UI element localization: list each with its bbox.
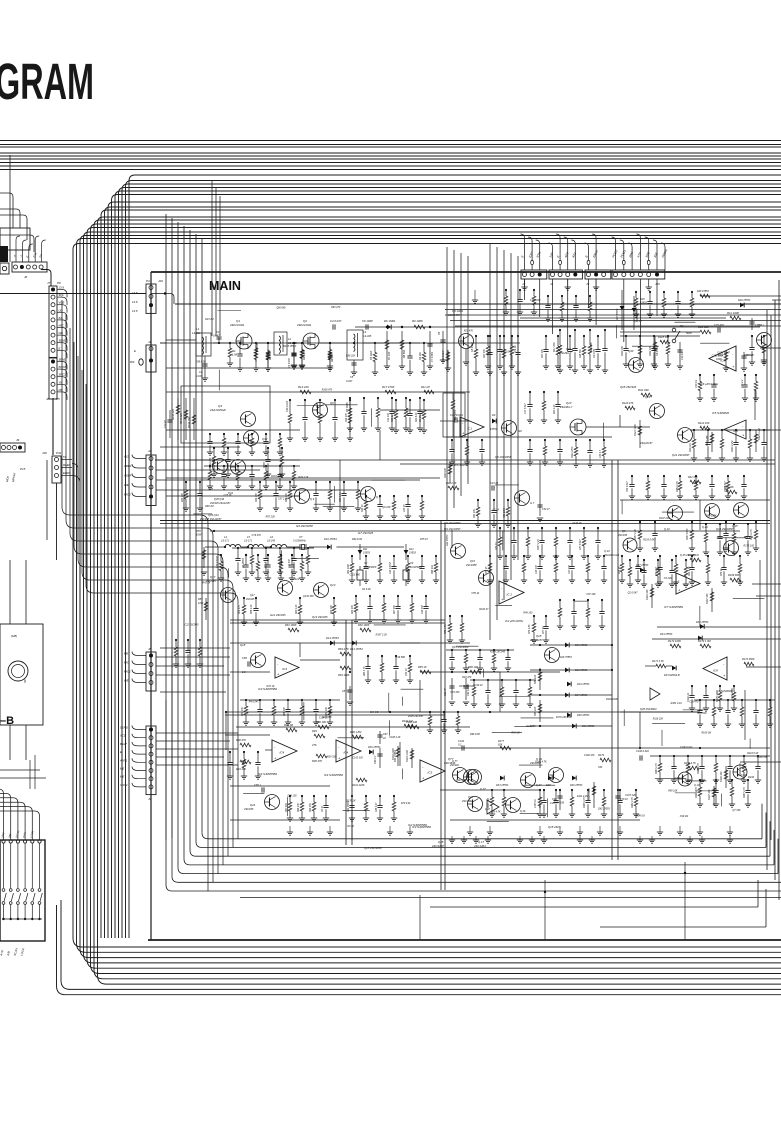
component gap F parts [473,680,475,687]
capacitor C2 0.047 [204,356,206,378]
component Q7 bias extra [365,496,367,501]
component far right col [751,336,753,348]
svg-text:R21 470: R21 470 [464,329,474,332]
component top mid bias [505,290,507,296]
svg-text:R18 56K: R18 56K [590,342,593,352]
svg-text:GRAM: GRAM [0,53,94,110]
resistor R244 16K [193,398,195,440]
svg-text:G6: G6 [518,429,522,433]
svg-text:R42 330: R42 330 [638,388,649,392]
diode D6 1N60 [387,325,391,330]
capacitor C77 0.1 [751,318,753,330]
transistor Q24 [705,504,720,519]
svg-text:R29 2.2K: R29 2.2K [298,476,308,479]
svg-text:10W: 10W [196,533,202,537]
svg-text:Q40 100K: Q40 100K [706,515,717,518]
transistor Q2b right edge [757,333,772,348]
svg-text:R76 8.2K: R76 8.2K [744,354,754,357]
svg-text:J9: J9 [148,797,152,801]
wire demod out [420,671,500,673]
resistor R10 100W [725,350,727,368]
connector J8/P5 [49,358,57,399]
wire J7 stem [41,269,47,271]
svg-text:Q2 0.047: Q2 0.047 [628,591,639,594]
svg-text:D149 1K: D149 1K [636,814,646,817]
resistor R88 10K [539,668,541,690]
svg-text:R57 22K: R57 22K [266,516,276,519]
resistor R173 1.8M [700,644,711,648]
svg-text:Q45 Q44: Q45 Q44 [214,498,225,501]
svg-text:D56 22K: D56 22K [346,354,356,357]
svg-text:2SC94ß: 2SC94ß [449,764,459,767]
svg-text:15553: 15553 [363,552,371,555]
svg-text:R35 100K: R35 100K [504,507,506,518]
ground bottom row 2 [451,836,453,840]
svg-text:E: E [59,346,61,350]
wire mid verticals [440,520,442,890]
resistor R42 330 [641,393,652,397]
svg-text:R91 47K: R91 47K [236,767,246,771]
resistor R4 100K [301,347,303,365]
svg-text:R22 8.2K: R22 8.2K [416,412,418,422]
wire speaker leads [9,560,11,624]
svg-text:P5: P5 [56,397,60,401]
svg-text:C3 0.047: C3 0.047 [288,357,291,368]
svg-text:WE: WE [124,679,129,683]
resistor R125 2.2M [755,430,757,452]
wire left column wires [160,647,230,649]
svg-text:R49 100: R49 100 [523,612,533,615]
svg-text:R67 10K: R67 10K [394,605,396,614]
svg-text:C100 0.022: C100 0.022 [680,746,693,749]
connector J9b [146,726,156,795]
capacitor C87 6.1 [349,686,351,700]
resistor R10b 100W [447,350,449,368]
svg-text:R3 100: R3 100 [268,351,272,360]
wire RF right rail [520,317,726,319]
svg-text:C90 0.01: C90 0.01 [738,774,748,777]
svg-text:R98 10K: R98 10K [298,803,300,812]
svg-text:2SC945 2SA1015Y: 2SC945 2SA1015Y [199,518,222,521]
svg-text:R4 100K: R4 100K [303,350,306,360]
svg-text:C68 4.7: C68 4.7 [374,755,377,764]
resistor R172 100K [670,644,681,648]
resistor R95 47K [316,754,327,758]
diode D42 15553 [451,530,453,548]
wire upper right rail [620,335,700,337]
svg-text:Q.25 2SC945: Q.25 2SC945 [680,554,696,557]
component right block parts [705,524,707,533]
svg-text:D13 15553: D13 15553 [326,636,339,640]
svg-text:50W: 50W [686,331,692,335]
wire audio rail 2 [230,785,330,787]
capacitor C5 [353,360,355,372]
component Q10 surround parts [529,392,531,405]
component RF filler row C [374,343,376,353]
svg-text:10W: 10W [198,602,204,605]
svg-text:Q47: Q47 [468,795,473,799]
transistor Q21 2SA1015Y [650,404,665,419]
resistor R110 1K [700,294,710,298]
resistor R89 22K [539,700,541,722]
svg-text:C64 33K: C64 33K [370,711,380,714]
capacitor C100 0.022 [639,755,641,760]
svg-text:R244 16K: R244 16K [188,417,191,428]
wire left harness bundle A with bottom bend [73,244,781,948]
svg-text:Q.26: Q.26 [520,810,526,813]
svg-text:R88 10K: R88 10K [534,674,537,684]
svg-text:C18 470: C18 470 [689,700,699,703]
capacitor C86 2.2 [247,661,249,666]
svg-text:R13 220: R13 220 [298,385,309,389]
svg-text:R102 1M: R102 1M [402,719,413,723]
resistor R104 1.8M [411,748,413,768]
svg-text:J2: J2 [148,449,152,453]
crystal X3 [405,566,407,570]
connector J7/P6 [49,286,57,357]
resistor R82 180K [360,628,371,632]
resistor R96 1.8M [352,735,363,739]
svg-text:R114 10K: R114 10K [649,345,652,356]
resistor R167 33K [711,588,713,612]
component demod filler [245,700,247,706]
component mid-right parts row [499,528,501,537]
component Q16 bias [289,796,291,802]
transistor Q1 2SK241GR [236,333,252,349]
svg-text:R32 33K: R32 33K [688,476,698,479]
capacitor C75 [717,327,719,332]
svg-text:D16 15553: D16 15553 [575,669,588,672]
component Q40 box [443,393,465,437]
svg-text:Q15 2SC945P: Q15 2SC945P [452,645,469,649]
transistor Q9 [295,489,310,504]
svg-text:R24 330: R24 330 [327,756,337,759]
svg-text:R119 33K: R119 33K [622,345,624,356]
diode D10 15553 [327,545,331,550]
resistor R1 1.8K [229,343,231,348]
svg-text:R157 2.2K: R157 2.2K [635,529,637,540]
svg-text:C1 1K: C1 1K [493,509,500,512]
svg-text:R12 330: R12 330 [698,325,709,329]
svg-text:2SC945: 2SC945 [617,534,628,537]
wire P3 riser [9,155,11,250]
svg-text:Q16: Q16 [250,803,256,807]
wire J8b pin leads [132,652,146,656]
svg-text:D68 100: D68 100 [287,794,297,797]
svg-text:15553: 15553 [490,427,498,431]
wire demod double rail [230,619,445,621]
diode D13 15553 [330,641,334,646]
wire interior mesh [166,367,330,369]
svg-text:R77 1K: R77 1K [543,626,545,634]
wire Q10 out [586,426,650,428]
svg-text:R71 15: R71 15 [486,566,488,574]
resistor R118 10K [660,340,670,344]
wire right edge verticals [766,310,768,870]
svg-text:SEND: SEND [59,358,67,362]
svg-text:Q.19: Q.19 [694,784,700,787]
diode D11 15553 [359,544,361,560]
svg-text:IC3: IC3 [428,771,433,775]
wire right column verticals [754,390,756,420]
svg-text:R81 10K: R81 10K [326,707,328,716]
svg-text:R197 22K: R197 22K [659,517,670,520]
svg-text:R17 10K: R17 10K [542,349,544,358]
svg-text:R148 100: R148 100 [444,467,447,478]
transistor G12 [278,581,293,596]
wire switch feed curves [0,789,4,840]
svg-text:R153 0.047: R153 0.047 [643,539,656,542]
svg-text:SEND: SEND [59,339,67,343]
svg-text:D10 15553: D10 15553 [324,537,337,541]
component Q19 bias [539,790,541,797]
wire MAIN board outline [151,271,781,273]
wire gap F rail [470,679,536,681]
svg-text:82K: 82K [498,744,503,747]
transistor Q25 [734,503,749,518]
connector J5 [585,270,611,279]
svg-text:D37 15553: D37 15553 [636,564,649,567]
svg-text:R148 2SC945: R148 2SC945 [490,651,506,654]
svg-text:2SA1015GR: 2SA1015GR [209,408,226,412]
transistor Q44 [231,460,246,475]
svg-text:Q43 Q44: Q43 Q44 [208,513,219,517]
inductor L3 LS-345 [347,330,363,360]
svg-text:J5: J5 [586,282,590,286]
svg-text:LS-171: LS-171 [244,540,253,543]
connector card edge left [0,263,9,274]
svg-text:L2: L2 [288,337,292,341]
ground top mid [472,299,478,301]
svg-text:C67: C67 [383,733,388,736]
svg-text:R118 8.2K: R118 8.2K [747,752,759,755]
wire stub sprinkle [218,310,241,312]
svg-text:330: 330 [598,766,603,769]
wire Q23 row rail [620,499,770,501]
svg-text:C57 2.2K: C57 2.2K [278,498,288,501]
component gap H parts [635,292,637,298]
svg-text:Q8: Q8 [622,529,626,533]
svg-text:J3: J3 [522,282,526,286]
svg-text:J10: J10 [655,282,660,286]
svg-text:C37 1K: C37 1K [224,494,232,497]
component gap B parts [559,600,561,608]
svg-text:2SC945P: 2SC945P [431,844,444,848]
transistor Q77 2SC3col [453,768,468,783]
svg-text:X2: X2 [363,561,368,565]
capacitor C7 0.001 [429,331,431,366]
svg-text:D18 15553: D18 15553 [582,725,595,728]
wire interconnects [339,460,341,520]
svg-text:R106: R106 [748,776,755,779]
svg-text:R98 10A: R98 10A [431,565,434,574]
component left mid filler [175,640,177,647]
svg-text:R79 1K: R79 1K [721,568,723,576]
svg-text:R195 15553: R195 15553 [283,345,297,348]
svg-text:QN 2SC945P: QN 2SC945P [444,521,460,525]
svg-text:Q17: Q17 [250,594,255,597]
svg-text:1.8K: 1.8K [232,353,238,357]
component IF bias2 [243,598,245,605]
resistor R7 10K [386,331,388,366]
svg-text:Q42 15553: Q42 15553 [598,807,611,810]
svg-text:R18 56K: R18 56K [580,349,582,358]
svg-text:Q10: Q10 [566,348,571,351]
transistor Q19 2SC945P [549,768,564,783]
resistor R106 100 [725,766,727,788]
svg-text:D48 16553: D48 16553 [577,714,590,717]
svg-text:C47 33P: C47 33P [568,565,571,574]
svg-text:R85 10K: R85 10K [668,790,678,793]
svg-text:R121 470K: R121 470K [634,424,637,436]
svg-text:G12: G12 [294,577,300,581]
wire P31 stem [56,483,58,560]
wire center drop bundle [446,247,448,520]
transistor Q19b [678,772,692,786]
svg-text:IC6: IC6 [720,359,725,363]
svg-text:Q10: Q10 [566,401,572,405]
svg-text:C7 0.001: C7 0.001 [431,351,434,362]
svg-text:R97 10K: R97 10K [286,803,288,812]
svg-text:C8 47: C8 47 [321,805,324,812]
wire board left column [150,272,152,940]
wire mid-left routed harness [62,300,208,891]
svg-text:C19 10: C19 10 [681,352,684,360]
wire top connector pin drops [524,279,526,300]
component mid row filler [487,336,489,346]
resistor P100 100 [408,725,419,729]
svg-text:R47 1K: R47 1K [267,685,275,688]
svg-text:R33 10K: R33 10K [474,509,476,518]
svg-text:Q6: Q6 [330,401,334,405]
svg-text:C14 33P: C14 33P [387,413,390,422]
svg-text:IC 2: IC 2 [507,592,513,596]
resistor R12 330 [700,330,711,334]
transistor Q8 2SC945 [623,538,637,552]
wire J2 pin wires right [156,459,300,461]
svg-text:R18 470: R18 470 [462,676,472,679]
connector J1 ant [146,345,156,372]
svg-text:R96 1.8M: R96 1.8M [350,730,362,734]
svg-text:R6 100: R6 100 [419,352,422,360]
svg-text:C43 63P: C43 63P [288,559,291,568]
diode D30 15553 [369,750,373,755]
svg-text:R3 10: R3 10 [347,825,354,828]
resistor R6 100 [329,347,331,368]
wire IF coil rail [205,546,225,548]
transistor Q18b 2SA1015Y [251,653,266,668]
svg-text:C52 1P: C52 1P [406,668,408,676]
transistor Q6b [361,487,376,502]
svg-text:MIC1: MIC1 [124,670,131,674]
capacitor C69 [559,790,561,810]
wire mid divider 460 [155,459,775,461]
svg-text:Y8: Y8 [59,380,63,384]
svg-text:R28 0.01: R28 0.01 [744,536,754,539]
svg-text:R6 100: R6 100 [331,353,334,362]
component gap A parts [349,398,351,408]
svg-text:R101 220K: R101 220K [352,784,365,787]
component mid band row [209,434,211,442]
wire IF rail right [460,530,740,532]
component gap C parts [367,656,369,667]
svg-text:WE: WE [124,483,129,487]
wire inner shield tops [175,303,781,305]
component row2 filler right [395,400,397,410]
capacitor C85 1 [261,787,263,792]
svg-text:C4 0.047: C4 0.047 [330,319,342,323]
svg-text:A15: A15 [123,455,129,459]
svg-text:R99 15K: R99 15K [310,803,312,812]
svg-text:R174 380K: R174 380K [742,658,755,661]
svg-text:R84 180K: R84 180K [338,673,350,677]
crystal X7 [299,544,301,550]
svg-text:C25 10: C25 10 [404,504,406,512]
wire RF rail [160,342,520,344]
svg-text:ABDF: ABDF [123,464,132,468]
svg-text:R87 10K: R87 10K [242,707,244,716]
svg-text:47K: 47K [312,743,317,747]
transistor G6 [502,421,517,436]
svg-text:R179: R179 [598,754,605,757]
resistor R177 82K [500,746,511,750]
svg-text:ANT1: ANT1 [119,758,128,762]
svg-text:C79 470: C79 470 [252,534,262,537]
resistor R3 100 [267,349,269,368]
node junction dots [218,342,220,344]
inductor L4 LS-171 [225,544,241,547]
svg-text:R247 22K: R247 22K [180,413,183,424]
svg-text:C23 10: C23 10 [490,482,499,485]
svg-text:0.047: 0.047 [196,375,203,378]
transistor QM cluster b [468,797,483,812]
svg-text:R19 100: R19 100 [346,413,348,422]
svg-text:D3: D3 [492,413,496,417]
wire IC2 area rail [446,649,514,651]
svg-text:D14 15553: D14 15553 [350,647,363,651]
component row3 bias [185,482,187,490]
svg-text:C9 22K: C9 22K [664,577,672,580]
transistor Q77b [733,765,747,779]
capacitor C104 0.1 [461,745,463,750]
svg-text:D32 15553: D32 15553 [696,621,709,624]
transistor Q48 buffer [650,688,660,700]
capacitor C3 [293,347,295,365]
wire J8 pin leads [57,361,62,363]
transistor Q4 2SA1015GR [241,412,256,427]
svg-text:Q6 2SC945P: Q6 2SC945P [495,455,512,459]
capacitor C8 0.063 [442,331,444,360]
svg-text:R169 86K: R169 86K [728,573,740,577]
wire IF rail [210,530,460,532]
svg-text:R12 4.7K: R12 4.7K [688,566,691,576]
svg-text:R55: R55 [196,529,201,533]
component Q23 top parts [631,476,633,485]
wire J8b pin wires right [156,656,230,658]
resistor R31 16K [726,490,737,494]
op-amp IC1 uPC1037H [460,417,484,437]
svg-text:C89 8.2K: C89 8.2K [196,361,206,364]
svg-text:Q13 2SC945: Q13 2SC945 [312,615,328,619]
svg-text:X7: X7 [298,535,303,539]
svg-text:VGE: VGE [59,301,65,305]
resistor R17 470K [385,390,396,394]
svg-text:C106 470: C106 470 [584,754,595,757]
transistor Q2 2SK241GR [303,333,319,349]
wire bus left corner drops [0,193,13,228]
diode D3 15553 [492,419,496,424]
wire right lower rail [650,755,770,757]
